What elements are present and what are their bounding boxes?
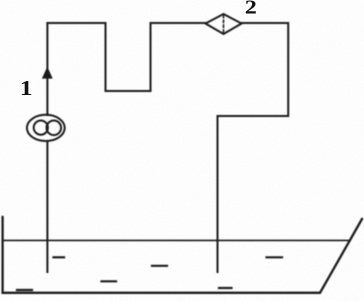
tank (left wall, bottom, slanted right wall) xyxy=(3,217,362,293)
wire: pump outlet up to top line xyxy=(46,23,48,115)
filter 2 (diamond with dotted vertical line) xyxy=(206,14,242,34)
fluid level line xyxy=(3,239,350,241)
wire: filter outlet right, down, and left to return corner xyxy=(218,23,289,116)
flow arrow on suction line xyxy=(42,67,53,79)
pump 1 (gear pump: ellipse with two circles) xyxy=(27,115,65,141)
svg-text:2: 2 xyxy=(245,0,257,18)
wire: top line with downward notch, to filter inlet xyxy=(47,23,205,91)
svg-text:1: 1 xyxy=(20,77,33,100)
wire: suction line from tank up to pump inlet xyxy=(46,141,48,272)
fluid dash marks xyxy=(17,257,282,290)
wire: return line down into tank xyxy=(217,116,219,272)
